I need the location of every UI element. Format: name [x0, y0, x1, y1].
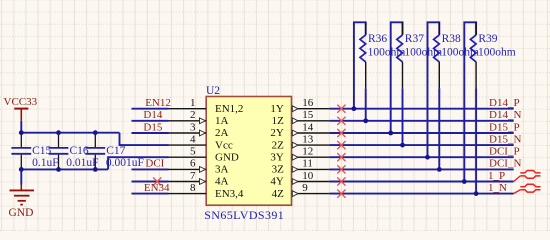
svg-text:100ohm: 100ohm — [368, 47, 406, 59]
svg-text:VCC33: VCC33 — [4, 96, 38, 108]
pin 2 1A — [169, 109, 229, 127]
junction top rail C16 — [56, 130, 61, 135]
net label DCI_N — [489, 158, 521, 170]
net label EN34 — [144, 182, 170, 194]
pin 1 EN1,2 — [169, 97, 244, 115]
pin 7 4A — [169, 170, 229, 188]
svg-text:3: 3 — [190, 121, 196, 133]
wire row8 — [329, 193, 513, 195]
svg-text:D14: D14 — [143, 109, 162, 121]
no-ERC marker row2 — [337, 117, 345, 125]
wire gnd jog to pin 5 — [108, 157, 168, 169]
svg-text:D15_N: D15_N — [489, 133, 521, 145]
svg-text:1Z: 1Z — [272, 115, 285, 127]
svg-text:R39: R39 — [478, 33, 497, 45]
svg-text:EN12: EN12 — [145, 97, 171, 109]
net label D15_N — [489, 133, 521, 145]
no-ERC marker row8 — [337, 190, 345, 198]
resistor R37 — [391, 22, 442, 145]
junction R36 P — [352, 106, 357, 111]
wire pin7 — [132, 181, 169, 183]
svg-text:GND: GND — [9, 207, 34, 219]
pin 4 Vcc — [169, 133, 233, 151]
svg-text:6: 6 — [190, 158, 196, 170]
pin 8 EN3,4 — [169, 182, 244, 200]
svg-text:D15_P: D15_P — [489, 121, 520, 133]
svg-text:R38: R38 — [442, 33, 461, 45]
junction top rail C15 — [19, 130, 24, 135]
svg-text:15: 15 — [302, 109, 314, 121]
svg-text:13: 13 — [302, 133, 314, 145]
pin 14 2Y — [270, 121, 329, 139]
svg-text:100ohm: 100ohm — [404, 47, 442, 59]
junction R39 N — [474, 191, 479, 196]
pin 6 3A — [169, 158, 229, 176]
svg-text:C17: C17 — [106, 145, 125, 157]
pin 9 4Z — [272, 182, 330, 200]
svg-text:GND: GND — [215, 151, 239, 163]
net label DCI — [145, 158, 164, 170]
svg-text:1: 1 — [190, 97, 196, 109]
net label DCI_P — [489, 146, 520, 158]
no-ERC marker row6 — [337, 165, 345, 173]
wire pin1 — [132, 108, 169, 110]
svg-text:3Y: 3Y — [270, 151, 284, 163]
svg-text:EN3,4: EN3,4 — [215, 188, 244, 200]
net label 1_P — [488, 170, 505, 182]
svg-text:EN34: EN34 — [144, 182, 170, 194]
svg-text:8: 8 — [190, 182, 196, 194]
junction R38 P — [425, 155, 430, 160]
wire pin8 — [132, 193, 169, 195]
wire row1 — [329, 108, 513, 110]
junction R39 P — [462, 179, 467, 184]
net label D14_N — [489, 109, 521, 121]
svg-text:16: 16 — [302, 97, 314, 109]
net label D14_P — [489, 97, 520, 109]
svg-text:R36: R36 — [368, 33, 387, 45]
svg-text:0.1uF: 0.1uF — [32, 157, 59, 169]
wire pin6 — [132, 168, 169, 170]
net label 1_N — [488, 182, 507, 194]
svg-text:SN65LVDS391: SN65LVDS391 — [204, 208, 284, 222]
no-ERC marker row3 — [337, 129, 345, 137]
wire pin2 — [132, 120, 169, 122]
net label EN12 — [145, 97, 171, 109]
svg-text:100ohm: 100ohm — [478, 47, 516, 59]
wire pin3 — [132, 132, 169, 134]
pin 15 1Z — [272, 109, 330, 127]
svg-text:1Y: 1Y — [270, 103, 284, 115]
junction R37 P — [388, 131, 393, 136]
svg-text:DCI_P: DCI_P — [489, 146, 520, 158]
svg-text:R37: R37 — [405, 33, 424, 45]
svg-text:1_N: 1_N — [488, 182, 507, 194]
svg-text:5: 5 — [190, 146, 196, 158]
ground GND — [9, 169, 35, 219]
wire row6 — [329, 168, 513, 170]
svg-text:DCI_N: DCI_N — [489, 158, 521, 170]
no-ERC marker row4 — [337, 141, 345, 149]
pin 5 GND — [169, 146, 239, 164]
op-amp U2 body — [204, 85, 291, 222]
power VCC33 — [4, 96, 38, 121]
svg-text:DCI: DCI — [145, 158, 164, 170]
junction R37 N — [400, 143, 405, 148]
svg-text:2Y: 2Y — [270, 127, 284, 139]
resistor R36 — [354, 22, 405, 121]
svg-text:2A: 2A — [215, 127, 229, 139]
pin 3 2A — [169, 121, 229, 139]
svg-text:EN1,2: EN1,2 — [215, 103, 243, 115]
net label D15_P — [489, 121, 520, 133]
junction R38 N — [437, 167, 442, 172]
wire bottom rail — [21, 168, 108, 170]
capacitor C16 — [49, 133, 99, 170]
junction top rail C17 — [93, 130, 98, 135]
wire row7 — [329, 181, 513, 183]
svg-text:4: 4 — [190, 133, 196, 145]
no-ERC marker row1 — [337, 105, 345, 113]
no-ERC marker row5 — [337, 153, 345, 161]
wire row4 — [329, 144, 513, 146]
svg-text:11: 11 — [302, 158, 313, 170]
pin 12 3Y — [270, 146, 329, 164]
svg-text:9: 9 — [302, 182, 308, 194]
svg-text:7: 7 — [190, 170, 196, 182]
wire row2 — [329, 120, 513, 122]
svg-text:1_P: 1_P — [488, 170, 505, 182]
pin 16 1Y — [270, 97, 329, 115]
svg-text:D15: D15 — [143, 121, 162, 133]
wire vcc jog to pin 4 — [120, 133, 169, 145]
pin 11 3Z — [272, 158, 330, 176]
pin 13 2Z — [272, 133, 330, 151]
pin 10 4Y — [270, 170, 329, 188]
svg-text:4Y: 4Y — [270, 176, 284, 188]
svg-text:D14_N: D14_N — [489, 109, 521, 121]
svg-text:U2: U2 — [206, 85, 220, 97]
net label D14 — [143, 109, 162, 121]
no-ERC marker row7 — [337, 177, 345, 185]
svg-text:3Z: 3Z — [272, 164, 285, 176]
resistor R38 — [428, 22, 479, 169]
differential pair directive 1_P — [514, 171, 541, 182]
wire top rail — [21, 132, 119, 134]
svg-text:0.001uF: 0.001uF — [106, 157, 144, 169]
svg-text:3A: 3A — [215, 164, 229, 176]
svg-text:D14_P: D14_P — [489, 97, 520, 109]
svg-text:14: 14 — [302, 121, 314, 133]
wire VCC stem — [20, 121, 22, 133]
wire row3 — [329, 132, 513, 134]
svg-text:0.01uF: 0.01uF — [66, 157, 98, 169]
no-ERC marker pin7 — [153, 177, 161, 185]
svg-text:1A: 1A — [215, 115, 229, 127]
svg-text:4Z: 4Z — [272, 188, 285, 200]
junction bottom rail C15 — [19, 167, 24, 172]
junction bottom rail C16 — [56, 167, 61, 172]
svg-text:Vcc: Vcc — [215, 139, 233, 151]
svg-text:12: 12 — [302, 146, 313, 158]
net label D15 — [143, 121, 162, 133]
resistor R39 — [464, 22, 515, 193]
svg-text:4A: 4A — [215, 176, 229, 188]
svg-text:100ohm: 100ohm — [441, 47, 479, 59]
junction bottom rail C17 — [93, 167, 98, 172]
svg-text:2Z: 2Z — [272, 139, 285, 151]
capacitor C15 — [11, 133, 58, 170]
wire row5 — [329, 156, 513, 158]
svg-text:10: 10 — [302, 170, 314, 182]
svg-text:2: 2 — [190, 109, 196, 121]
differential pair directive 1_N — [514, 184, 541, 193]
capacitor C17 — [85, 133, 144, 170]
junction R36 N — [363, 118, 368, 123]
